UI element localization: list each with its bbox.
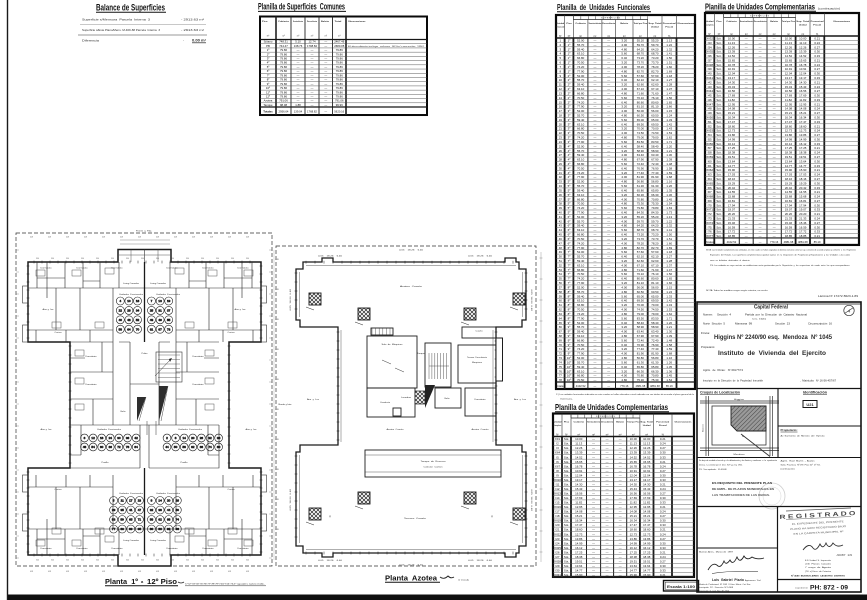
svg-text:47: 47: [559, 241, 563, 245]
svg-text:Dormitorio: Dormitorio: [203, 267, 214, 270]
svg-text:1º: 1º: [568, 65, 572, 69]
signature right: [803, 543, 843, 550]
svg-text:—: —: [592, 523, 595, 527]
svg-text:—: —: [592, 501, 595, 505]
svg-text:(T.F. s) Direc. de Catastro: (T.F. s) Direc. de Catastro: [805, 570, 832, 573]
svg-text:4.18: 4.18: [102, 237, 105, 239]
svg-text:66: 66: [559, 325, 563, 329]
svg-text:—: —: [607, 61, 610, 65]
svg-text:8.26: 8.26: [276, 259, 279, 261]
svg-text:61: 61: [559, 303, 563, 307]
svg-text:I63: I63: [708, 173, 712, 177]
svg-text:—: —: [593, 87, 596, 91]
svg-text:1.15: 1.15: [666, 109, 672, 113]
svg-text:—: —: [619, 469, 622, 473]
svg-text:86: 86: [158, 527, 162, 531]
svg-text:14.08: 14.08: [643, 510, 651, 514]
svg-text:—: —: [745, 151, 748, 155]
svg-text:60.50: 60.50: [651, 290, 659, 294]
svg-text:1º: 1º: [568, 69, 572, 73]
svg-text:0.33: 0.33: [660, 569, 666, 573]
svg-text:—: —: [593, 233, 596, 237]
svg-text:79.00: 79.00: [637, 136, 645, 140]
svg-text:—: —: [607, 43, 610, 47]
svg-text:1.41: 1.41: [666, 52, 672, 56]
svg-text:1.27: 1.27: [666, 78, 672, 82]
svg-text:5.60: 5.60: [621, 74, 627, 78]
svg-text:16.78: 16.78: [643, 464, 651, 468]
svg-text:5.60: 5.60: [621, 316, 627, 320]
svg-text:11.13: 11.13: [728, 41, 735, 45]
svg-text:—: —: [592, 460, 595, 464]
svg-text:I64: I64: [708, 177, 712, 181]
svg-text:77.90: 77.90: [577, 352, 585, 356]
svg-text:0.00 m²: 0.00 m²: [192, 39, 207, 43]
svg-text:3.50: 3.50: [156, 258, 159, 260]
svg-text:—: —: [593, 56, 596, 60]
svg-text:Sót.: Sót.: [564, 442, 569, 446]
svg-text:18: 18: [100, 436, 104, 440]
svg-text:6.40: 6.40: [621, 277, 627, 281]
svg-text:4.18: 4.18: [246, 237, 249, 239]
svg-text:1.68: 1.68: [666, 352, 672, 356]
svg-text:—: —: [593, 224, 596, 228]
svg-text:79.00: 79.00: [637, 312, 645, 316]
svg-text:1.45: 1.45: [666, 374, 672, 378]
svg-text:21: 21: [559, 127, 563, 131]
svg-text:Escala 1:100: Escala 1:100: [667, 584, 696, 589]
svg-text:1.21: 1.21: [666, 325, 672, 329]
divider under croquis: [697, 457, 861, 459]
svg-text:8º: 8º: [568, 308, 572, 312]
svg-text:Azotea Común: Azotea Común: [472, 428, 489, 431]
svg-text:Total por Piso: Total por Piso: [627, 421, 640, 424]
svg-text:0.33: 0.33: [660, 523, 666, 527]
svg-text:6.40: 6.40: [621, 321, 627, 325]
svg-text:4.80: 4.80: [621, 290, 627, 294]
svg-text:77.90: 77.90: [577, 105, 585, 109]
svg-text:49: 49: [158, 318, 162, 322]
svg-text:66.80: 66.80: [577, 303, 585, 307]
sheet bottom black bar: [8, 595, 867, 600]
svg-text:4.18: 4.18: [210, 237, 213, 239]
svg-text:11.13: 11.13: [799, 41, 806, 45]
svg-text:3.50: 3.50: [81, 258, 84, 260]
svg-text:Balcón: Balcón: [770, 21, 779, 23]
svg-text:1.39: 1.39: [666, 158, 672, 162]
svg-text:25: 25: [559, 144, 563, 148]
svg-text:3.20: 3.20: [621, 61, 627, 65]
svg-text:—: —: [773, 50, 776, 54]
svg-text:73.70: 73.70: [637, 237, 645, 241]
svg-text:Aire y Luz: Aire y Luz: [514, 398, 526, 401]
svg-text:Dormitorio: Dormitorio: [41, 267, 52, 270]
svg-text:18.60: 18.60: [643, 528, 651, 532]
svg-text:m²: m²: [324, 35, 327, 38]
vertical divider lower titleblock: [777, 507, 779, 593]
svg-text:62.60: 62.60: [651, 83, 659, 87]
svg-text:—: —: [607, 69, 610, 73]
svg-text:8.26: 8.26: [276, 319, 279, 321]
svg-text:70.50: 70.50: [577, 61, 585, 65]
svg-text:1.26: 1.26: [666, 360, 672, 364]
svg-text:Descubierta: Descubierta: [754, 20, 768, 23]
svg-text:—: —: [592, 564, 595, 568]
svg-text:—: —: [592, 469, 595, 473]
svg-text:13.64: 13.64: [630, 564, 638, 568]
svg-text:I40: I40: [708, 72, 712, 76]
svg-text:—: —: [759, 36, 762, 40]
svg-text:13.39: 13.39: [785, 50, 793, 54]
svg-text:—: —: [619, 451, 622, 455]
svg-text:8.26: 8.26: [276, 499, 279, 501]
svg-text:63.40: 63.40: [637, 153, 645, 157]
svg-text:I15: I15: [555, 501, 559, 505]
faint round stamp: [759, 483, 785, 509]
svg-text:2º: 2º: [568, 74, 572, 78]
svg-text:17.25: 17.25: [575, 550, 583, 554]
svg-text:—: —: [607, 241, 610, 245]
svg-text:17.69: 17.69: [643, 496, 651, 500]
svg-text:67.90: 67.90: [651, 158, 659, 162]
svg-text:55.70: 55.70: [577, 325, 585, 329]
svg-text:16: 16: [559, 105, 563, 109]
svg-text:0.24: 0.24: [660, 532, 666, 536]
plan 1: central party wall: [144, 262, 146, 342]
svg-text:—: —: [592, 487, 595, 491]
svg-text:1.33: 1.33: [666, 118, 672, 122]
svg-text:13.17: 13.17: [643, 478, 651, 482]
svg-text:Complem.: Complem.: [553, 425, 562, 427]
svg-text:65.80: 65.80: [637, 365, 645, 369]
svg-text:3º: 3º: [568, 127, 572, 131]
svg-text:12.95: 12.95: [630, 505, 638, 509]
svg-text:—: —: [606, 528, 609, 532]
svg-text:—: —: [593, 290, 596, 294]
svg-text:Sót.: Sót.: [716, 159, 721, 163]
svg-text:—: —: [593, 241, 596, 245]
svg-text:75.30: 75.30: [651, 202, 659, 206]
svg-text:0.21: 0.21: [660, 573, 666, 577]
svg-text:I12: I12: [555, 487, 559, 491]
svg-text:6.40: 6.40: [621, 100, 627, 104]
svg-text:—: —: [607, 290, 610, 294]
svg-text:XII32: XII32: [706, 36, 713, 40]
svg-text:12.04: 12.04: [799, 72, 807, 76]
svg-text:4º: 4º: [568, 162, 572, 166]
svg-text:13.86: 13.86: [643, 537, 651, 541]
svg-text:—: —: [759, 159, 762, 163]
svg-text:Planilla de Unidades Complemen: Planilla de Unidades Complementarias: [705, 3, 815, 12]
svg-text:79.00: 79.00: [651, 312, 659, 316]
svg-text:52.00: 52.00: [577, 109, 585, 113]
svg-text:—: —: [619, 514, 622, 518]
svg-text:Higgins: Higgins: [734, 399, 745, 401]
svg-text:5.60: 5.60: [621, 360, 627, 364]
svg-text:22: 22: [119, 309, 123, 313]
sheet left edge line: [7, 0, 9, 600]
svg-text:3.20: 3.20: [621, 149, 627, 153]
svg-text:13: 13: [158, 299, 162, 303]
svg-text:55.20: 55.20: [651, 215, 659, 219]
plan 2: property boundary dashed: [276, 246, 536, 566]
svg-text:—: —: [607, 338, 610, 342]
svg-text:(continuación): (continuación): [781, 468, 795, 471]
svg-text:3.50: 3.50: [231, 258, 234, 260]
svg-text:6.40: 6.40: [621, 78, 627, 82]
svg-text:—: —: [593, 228, 596, 232]
svg-text:—: —: [593, 83, 596, 87]
svg-text:Dormitorio: Dormitorio: [77, 267, 88, 270]
svg-text:—: —: [593, 43, 596, 47]
svg-text:1.60: 1.60: [666, 65, 672, 69]
svg-text:59.40: 59.40: [577, 188, 585, 192]
svg-text:75: 75: [559, 365, 563, 369]
svg-text:—: —: [619, 564, 622, 568]
svg-text:2º: 2º: [568, 105, 572, 109]
svg-text:12.73: 12.73: [575, 532, 583, 536]
svg-text:17.47: 17.47: [643, 523, 651, 527]
svg-text:4.05 18.26 6.40: 4.05 18.26 6.40: [290, 289, 292, 311]
svg-text:—: —: [606, 442, 609, 446]
svg-text:45: 45: [559, 233, 563, 237]
svg-text:—: —: [773, 72, 776, 76]
svg-text:4.00: 4.00: [621, 153, 627, 157]
svg-text:—: —: [593, 197, 596, 201]
svg-text:Azotea Común: Azotea Común: [387, 428, 404, 431]
svg-text:70.50: 70.50: [577, 202, 585, 206]
svg-text:4.18: 4.18: [192, 571, 195, 573]
svg-text:11.82: 11.82: [643, 501, 650, 505]
svg-text:3.50: 3.50: [51, 258, 54, 260]
svg-text:3.50: 3.50: [111, 258, 114, 260]
svg-text:4881.68: 4881.68: [650, 384, 660, 388]
svg-text:Living Comedor: Living Comedor: [123, 282, 140, 285]
svg-text:4.18: 4.18: [246, 571, 249, 573]
plan 1: dark stair triangles: [137, 397, 146, 421]
svg-text:67.90: 67.90: [637, 334, 645, 338]
svg-text:77.40: 77.40: [651, 171, 659, 175]
svg-text:12.04: 12.04: [785, 72, 793, 76]
svg-text:84.30: 84.30: [651, 211, 659, 215]
svg-text:80: 80: [150, 527, 154, 531]
svg-text:58: 58: [119, 327, 123, 331]
svg-text:55.20: 55.20: [651, 39, 659, 43]
croquis arrow: [741, 434, 770, 457]
svg-text:60: 60: [100, 445, 104, 449]
svg-text:0.30: 0.30: [814, 181, 820, 185]
planilla superficies comunes: table frame: [260, 17, 427, 116]
svg-text:—: —: [607, 47, 610, 51]
svg-text:3.50: 3.50: [216, 560, 219, 562]
svg-text:4.80: 4.80: [621, 91, 627, 95]
svg-text:3.20: 3.20: [621, 303, 627, 307]
svg-text:Sót.: Sót.: [564, 496, 569, 500]
svg-text:3.50: 3.50: [201, 258, 204, 260]
svg-text:32: 32: [208, 436, 212, 440]
svg-text:4.05 18.26 6.40: 4.05 18.26 6.40: [468, 560, 492, 562]
svg-text:19: 19: [559, 118, 563, 122]
svg-text:4.05 18.26 6.40: 4.05 18.26 6.40: [530, 489, 532, 511]
svg-text:0.21: 0.21: [660, 550, 666, 554]
svg-text:XII7: XII7: [555, 464, 561, 468]
svg-text:63.40: 63.40: [651, 153, 659, 157]
svg-text:79.80: 79.80: [651, 206, 659, 210]
svg-text:Planta 1º: Planta 1º: [105, 577, 138, 586]
circled sheet number 4: [844, 305, 854, 315]
svg-text:4.00: 4.00: [621, 241, 627, 245]
svg-text:Cocina: Cocina: [228, 489, 235, 491]
svg-text:0.33: 0.33: [660, 455, 666, 459]
svg-text:58.40: 58.40: [637, 321, 645, 325]
svg-text:1.28: 1.28: [666, 83, 672, 87]
svg-text:—: —: [607, 263, 610, 267]
svg-text:—: —: [593, 272, 596, 276]
svg-text:16.56: 16.56: [643, 491, 651, 495]
svg-text:60.50: 60.50: [651, 113, 659, 117]
svg-text:16.78: 16.78: [575, 464, 583, 468]
svg-text:1.36: 1.36: [666, 369, 672, 373]
svg-text:—: —: [773, 58, 776, 62]
svg-text:0.24: 0.24: [814, 41, 820, 45]
svg-text:4º: 4º: [568, 144, 572, 148]
svg-text:55.20: 55.20: [637, 39, 645, 43]
svg-text:—: —: [593, 259, 596, 263]
svg-text:74.20: 74.20: [577, 136, 585, 140]
svg-text:1.41: 1.41: [666, 228, 672, 232]
svg-text:Sót.: Sót.: [716, 151, 721, 155]
svg-text:11.82: 11.82: [630, 501, 637, 505]
svg-text:73.70: 73.70: [651, 237, 659, 241]
svg-text:55.70: 55.70: [577, 360, 585, 364]
svg-text:68: 68: [167, 518, 171, 522]
svg-text:—: —: [593, 65, 596, 69]
svg-text:59.40: 59.40: [577, 330, 585, 334]
svg-text:62: 62: [559, 308, 563, 312]
svg-text:Sót.: Sót.: [564, 460, 569, 464]
svg-text:—: —: [759, 241, 762, 244]
svg-text:Descubierta: Descubierta: [602, 22, 615, 25]
svg-text:—: —: [592, 555, 595, 559]
svg-text:—: —: [606, 505, 609, 509]
svg-text:24: 24: [559, 140, 563, 144]
svg-text:10º: 10º: [567, 374, 572, 378]
svg-text:Sót.: Sót.: [564, 510, 569, 514]
divider above PH bar: [778, 579, 862, 581]
svg-text:3.50: 3.50: [186, 258, 189, 260]
svg-text:—: —: [607, 308, 610, 312]
svg-text:—: —: [619, 528, 622, 532]
svg-text:52.00: 52.00: [577, 39, 585, 43]
plan 2: hatched shaft: [415, 391, 425, 404]
svg-text:1.22: 1.22: [666, 219, 672, 223]
svg-text:NOTA: Las Unidades Complementa: NOTA: Las Unidades Complementarias señal…: [706, 249, 856, 252]
svg-text:m²: m²: [338, 35, 341, 38]
svg-text:Mendoza: Mendoza: [734, 454, 746, 456]
svg-text:83.50: 83.50: [637, 316, 645, 320]
svg-text:76.10: 76.10: [651, 96, 659, 100]
svg-text:17.69: 17.69: [630, 496, 638, 500]
svg-text:—: —: [607, 83, 610, 87]
svg-text:6.40: 6.40: [621, 343, 627, 347]
plan 1: bulkhead divider: [144, 250, 146, 263]
svg-text:15.90: 15.90: [575, 573, 583, 577]
svg-text:64: 64: [559, 316, 563, 320]
svg-text:12: 12: [91, 436, 95, 440]
svg-text:Sót.: Sót.: [716, 173, 721, 177]
svg-text:12.26: 12.26: [799, 45, 807, 49]
svg-text:1.50: 1.50: [666, 233, 672, 237]
svg-text:139.04: 139.04: [294, 110, 303, 114]
svg-text:1.21: 1.21: [666, 149, 672, 153]
svg-text:62.60: 62.60: [637, 83, 645, 87]
svg-text:11.13: 11.13: [785, 41, 792, 45]
svg-text:25: 25: [150, 309, 154, 313]
svg-text:38: 38: [559, 202, 563, 206]
svg-text:66.80: 66.80: [577, 56, 585, 60]
svg-text:58.90: 58.90: [637, 149, 645, 153]
svg-text:80.60: 80.60: [637, 100, 645, 104]
svg-text:13.86: 13.86: [630, 537, 638, 541]
svg-text:16.56: 16.56: [575, 491, 583, 495]
svg-text:73.20: 73.20: [637, 233, 645, 237]
svg-text:4.05 18.26 6.40: 4.05 18.26 6.40: [399, 565, 423, 567]
svg-text:—: —: [606, 464, 609, 468]
svg-text:m²: m²: [282, 35, 285, 38]
svg-text:65.80: 65.80: [651, 188, 659, 192]
svg-text:Observaciones: Observaciones: [833, 20, 851, 23]
svg-text:—: —: [606, 514, 609, 518]
svg-text:Luis Gabriel Pizzio: Luis Gabriel Pizzio: [712, 578, 744, 582]
svg-text:—: —: [619, 455, 622, 459]
svg-text:—: —: [607, 52, 610, 56]
svg-text:3.20: 3.20: [621, 215, 627, 219]
svg-text:4881.68: 4881.68: [635, 384, 645, 388]
svg-text:Sup. Total: Sup. Total: [796, 20, 810, 23]
svg-text:19.29: 19.29: [728, 181, 736, 185]
svg-text:—: —: [592, 478, 595, 482]
svg-text:—: —: [619, 478, 622, 482]
svg-text:61.30: 61.30: [651, 360, 659, 364]
svg-text:—: —: [607, 96, 610, 100]
svg-text:74.50: 74.50: [651, 131, 659, 135]
svg-text:—: —: [773, 151, 776, 155]
svg-text:59: 59: [121, 518, 125, 522]
svg-text:0.33: 0.33: [814, 54, 820, 58]
svg-text:0.24: 0.24: [660, 555, 666, 559]
svg-text:XII4: XII4: [555, 451, 561, 455]
svg-text:Propietario:: Propietario:: [701, 346, 715, 349]
svg-text:—: —: [593, 149, 596, 153]
svg-text:Matrícula Profesional Nº 110: Matrícula Profesional Nº 1103 V.Citas Ma…: [699, 583, 752, 586]
svg-text:—: —: [607, 87, 610, 91]
svg-text:14.77: 14.77: [728, 164, 736, 168]
svg-text:-90/87 1/9: -90/87 1/9: [836, 554, 853, 557]
svg-text:6º: 6º: [568, 224, 572, 228]
svg-text:—: —: [593, 352, 596, 356]
svg-text:43: 43: [150, 318, 154, 322]
svg-text:6.40: 6.40: [621, 188, 627, 192]
svg-text:Sót.: Sót.: [716, 41, 721, 45]
svg-text:—: —: [619, 519, 622, 523]
svg-text:4º: 4º: [568, 153, 572, 157]
svg-text:78.20: 78.20: [637, 65, 645, 69]
svg-text:6.40: 6.40: [621, 233, 627, 237]
svg-text:—: —: [607, 39, 610, 43]
svg-text:—: —: [607, 197, 610, 201]
svg-text:15.21: 15.21: [575, 514, 583, 518]
svg-text:1.51: 1.51: [666, 237, 672, 241]
